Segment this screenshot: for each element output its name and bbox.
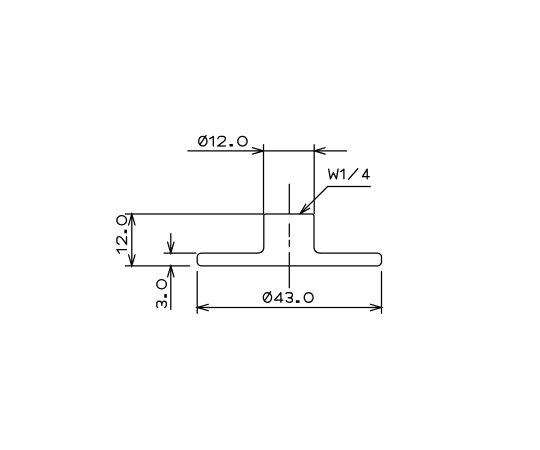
dim 12.0 top extension line — [125, 213, 263, 215]
dim 3.0 top extension line — [164, 252, 196, 254]
dim 12.0 dimension line — [131, 214, 133, 266]
dim Ø43.0 left extension line — [196, 272, 198, 314]
dim 12.0 down arrowhead — [129, 255, 135, 266]
dim Ø43.0 right extension line — [381, 272, 383, 314]
label W1/4 — [329, 169, 370, 180]
dim Ø12.0 right arrowhead — [314, 148, 325, 154]
dim Ø43.0 right arrowhead — [371, 304, 382, 310]
center line hidden dash 2 — [288, 240, 290, 246]
dim Ø43.0 dimension line — [197, 307, 381, 309]
dim Ø12.0 dimension line — [188, 150, 347, 152]
label Ø12.0 — [199, 136, 248, 147]
dim Ø12.0 left arrowhead — [253, 148, 264, 154]
boss outline (threaded stud body) — [257, 214, 321, 253]
dim 3.0 up arrowhead — [168, 266, 174, 277]
leader W1/4 underline — [328, 186, 371, 188]
dim Ø12.0 left extension line — [263, 145, 265, 214]
dim 3.0 upper leader line — [170, 234, 172, 253]
dim 3.0 down arrowhead — [168, 242, 174, 253]
label 3.0 (rotated) — [157, 280, 167, 308]
dim 12.0 bottom extension line — [125, 265, 189, 267]
dim Ø43.0 left arrowhead — [197, 304, 208, 310]
center line upper segment — [288, 184, 290, 214]
leader W1/4 arrowhead — [300, 204, 310, 214]
dim 3.0 lower leader line — [170, 266, 172, 310]
dim Ø12.0 right extension line — [313, 145, 315, 214]
leader W1/4 diagonal — [300, 187, 328, 214]
center line lower segment — [288, 253, 290, 288]
dim 12.0 up arrowhead — [129, 214, 135, 225]
flange outline (base plate) — [197, 253, 381, 266]
center line hidden dash 1 — [288, 224, 290, 237]
label 12.0 (rotated) — [117, 216, 127, 254]
label Ø43.0 — [263, 292, 313, 303]
